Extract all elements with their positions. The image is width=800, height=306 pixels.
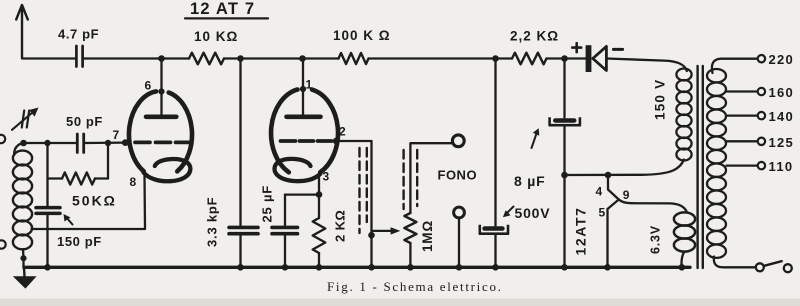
tap 110 [727, 164, 758, 166]
wire [84, 57, 162, 59]
svg-text:8 µF: 8 µF [514, 173, 546, 189]
svg-text:7: 7 [113, 128, 120, 142]
wire [85, 141, 125, 144]
wire [241, 57, 303, 59]
heater pins [608, 175, 619, 267]
wire grid1 [24, 142, 77, 144]
wire [410, 143, 452, 213]
potentiometer R6 1M [404, 213, 416, 243]
node [44, 140, 50, 146]
capacitor 4.7pF [75, 46, 78, 67]
svg-text:2 KΩ: 2 KΩ [333, 210, 348, 242]
wire [284, 234, 286, 268]
node D [492, 55, 499, 62]
wire [682, 252, 685, 267]
ground [23, 267, 26, 276]
wire [494, 59, 496, 227]
triode V1a cathode [144, 159, 191, 181]
svg-text:50KΩ: 50KΩ [72, 193, 117, 209]
wire [336, 140, 371, 142]
wire [22, 249, 25, 258]
svg-text:25 µF: 25 µF [260, 185, 275, 223]
node C (plate V1b) [299, 55, 306, 62]
wire [239, 234, 241, 268]
wire [409, 243, 411, 267]
tap 125 [727, 140, 758, 142]
svg-text:110: 110 [769, 159, 794, 174]
wire heater [565, 160, 684, 176]
triode V1b cathode lead [318, 176, 320, 218]
wire bus [24, 266, 690, 269]
switch S1 [756, 263, 764, 271]
junction [492, 264, 499, 271]
wire [714, 257, 756, 268]
triode V1b grid [281, 139, 296, 143]
wire [14, 143, 24, 156]
svg-text:500V: 500V [515, 205, 551, 221]
diode D1 [586, 45, 592, 72]
resistor R3 2.2K [512, 53, 547, 65]
svg-text:150 V: 150 V [653, 79, 668, 120]
triode V1a cathode lead [32, 175, 146, 229]
transformer core [696, 66, 698, 268]
triode V1a envelope [169, 93, 192, 172]
arrow to lower 8uF [507, 207, 514, 214]
junction [44, 264, 51, 271]
svg-text:100 K Ω: 100 K Ω [333, 28, 391, 43]
svg-text:220: 220 [769, 52, 795, 67]
wire [370, 141, 372, 267]
triode V1b cathode [274, 159, 320, 181]
junction [604, 264, 611, 271]
wire [496, 57, 513, 59]
wire [606, 59, 686, 72]
junction [561, 264, 568, 271]
node [605, 172, 612, 179]
tap 220 [712, 59, 757, 73]
wire [46, 213, 48, 267]
resistor R4 2K [313, 218, 326, 253]
pin 2 node [333, 138, 340, 145]
svg-text:150 pF: 150 pF [57, 234, 102, 249]
svg-text:1: 1 [306, 78, 313, 92]
capacitor C6 8uF upper [553, 118, 577, 122]
junction [407, 264, 414, 271]
diode D1 minus label [613, 48, 622, 51]
svg-text:6.3V: 6.3V [649, 225, 663, 254]
jack FONO top [452, 135, 464, 147]
wire [285, 193, 319, 195]
winding 150V [676, 69, 691, 81]
pin 7 node [122, 139, 129, 146]
tap 140 [727, 114, 758, 116]
triode V1a plate [160, 59, 162, 115]
tap 160 [727, 90, 758, 92]
pin 3 node [316, 191, 323, 198]
svg-text:3.3 kpF: 3.3 kpF [205, 197, 220, 247]
svg-text:3: 3 [323, 170, 330, 184]
svg-text:160: 160 [769, 85, 795, 100]
svg-text:2: 2 [339, 125, 346, 139]
wire [46, 179, 48, 206]
node A [158, 55, 165, 62]
capacitor C4 25uF [272, 226, 298, 230]
capacitor C7 8uF lower [482, 226, 504, 231]
junction [282, 264, 289, 271]
pin 1 node [300, 86, 306, 92]
capacitor C2 50pF [76, 134, 79, 153]
svg-text:6: 6 [145, 79, 152, 93]
wire [224, 57, 241, 59]
node [561, 172, 568, 179]
jack FONO bottom [454, 207, 465, 218]
wire [303, 57, 339, 59]
wire [239, 59, 241, 227]
winding primary [707, 69, 726, 82]
trimmer arrow [22, 111, 24, 128]
node B [237, 55, 244, 62]
junction [368, 232, 375, 239]
wire [162, 57, 190, 59]
junction [679, 264, 686, 271]
wire [22, 57, 75, 59]
wiper arrow [372, 230, 392, 232]
junction [237, 264, 244, 271]
svg-text:2,2 KΩ: 2,2 KΩ [510, 29, 559, 44]
resistor R5 50K [48, 177, 63, 179]
wire [369, 57, 496, 59]
junction [456, 264, 463, 271]
svg-text:140: 140 [769, 109, 795, 124]
wire [547, 57, 565, 59]
svg-text:FONO: FONO [438, 168, 478, 183]
antenna arrow [16, 5, 28, 58]
capacitor C3 3.3kpF [229, 226, 258, 230]
terminal antenna [0, 135, 5, 143]
wire [458, 218, 460, 267]
wire [318, 253, 320, 267]
wire [563, 59, 565, 118]
junction [368, 264, 375, 271]
triode V1b plate [302, 59, 304, 115]
terminal earth [0, 240, 6, 248]
svg-text:50 pF: 50 pF [66, 114, 103, 129]
svg-text:1MΩ: 1MΩ [420, 220, 435, 252]
wire [565, 57, 586, 59]
svg-text:4: 4 [596, 185, 603, 199]
svg-text:125: 125 [769, 135, 795, 150]
resistor R1 10K [189, 53, 224, 65]
junction [316, 264, 323, 271]
inductor L1 antenna coil [13, 151, 32, 166]
triode V1b envelope [312, 90, 338, 173]
diode D1 plus label [572, 43, 581, 52]
svg-text:5: 5 [599, 206, 606, 220]
svg-text:12 AT 7: 12 AT 7 [190, 0, 255, 18]
shield cable 2 [402, 150, 404, 209]
shield cable 1 [358, 148, 360, 233]
node [105, 140, 111, 146]
wire [46, 143, 48, 179]
node coil bottom [20, 255, 26, 261]
wire [563, 125, 565, 267]
node coil top [20, 140, 27, 147]
arrow to upper 8uF [532, 134, 537, 149]
svg-text:9: 9 [623, 188, 630, 202]
resistor R2 100K [339, 53, 369, 64]
svg-text:Fig. 1 - Schema elettrico.: Fig. 1 - Schema elettrico. [327, 279, 503, 294]
svg-text:10 KΩ: 10 KΩ [194, 29, 238, 44]
node E [561, 55, 568, 62]
wire [494, 234, 496, 268]
winding 6.3V [674, 212, 695, 225]
svg-text:12AT7: 12AT7 [573, 207, 589, 256]
pin 6 node [158, 88, 164, 94]
svg-text:4.7 pF: 4.7 pF [58, 27, 99, 42]
capacitor C5 150pF [36, 206, 60, 210]
bottom grey band [0, 299, 800, 306]
arrow to 150pF [66, 217, 73, 225]
wire pin9 to 6.3V winding [619, 200, 687, 213]
triode V1a grid [135, 141, 150, 145]
svg-text:8: 8 [130, 175, 137, 189]
